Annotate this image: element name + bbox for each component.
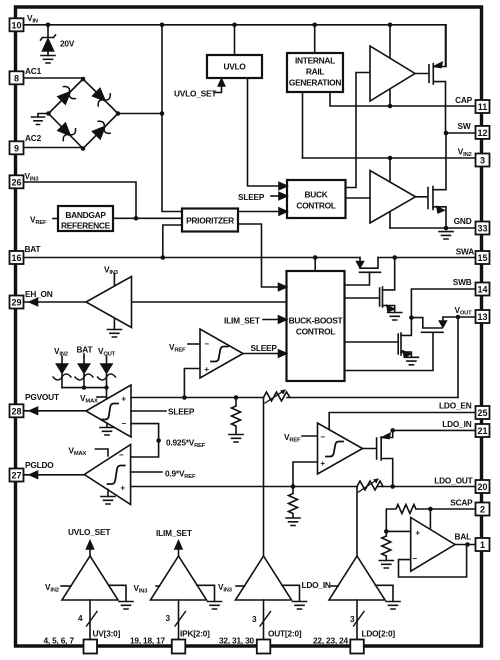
svg-text:3: 3	[252, 614, 257, 624]
svg-text:ILIM_SET: ILIM_SET	[224, 316, 260, 326]
svg-text:20V: 20V	[60, 39, 75, 49]
svg-text:PGLDO: PGLDO	[25, 460, 54, 470]
svg-text:9: 9	[14, 143, 19, 153]
svg-text:20: 20	[477, 482, 487, 492]
svg-text:−: −	[412, 554, 417, 563]
svg-text:PRIORITZER: PRIORITZER	[186, 216, 234, 226]
svg-text:27: 27	[11, 471, 21, 481]
svg-text:8: 8	[14, 73, 19, 83]
svg-text:−: −	[320, 433, 325, 442]
svg-text:+: +	[120, 484, 125, 493]
svg-text:ILIM_SET: ILIM_SET	[156, 528, 192, 538]
svg-text:CONTROL: CONTROL	[296, 327, 335, 337]
svg-text:GENERATION: GENERATION	[289, 78, 341, 88]
svg-text:UVLO: UVLO	[223, 62, 246, 72]
svg-text:CAP: CAP	[455, 95, 473, 105]
svg-text:SLEEP: SLEEP	[251, 343, 278, 353]
svg-text:GND: GND	[454, 216, 472, 226]
svg-text:SLEEP: SLEEP	[238, 192, 265, 202]
svg-text:AC2: AC2	[25, 133, 42, 143]
svg-text:AC1: AC1	[25, 66, 42, 76]
svg-text:+: +	[320, 459, 325, 468]
svg-text:25: 25	[477, 408, 487, 418]
svg-text:IPK[2:0]: IPK[2:0]	[180, 629, 210, 639]
svg-text:SLEEP: SLEEP	[168, 407, 195, 417]
svg-text:+: +	[204, 365, 209, 374]
svg-text:BAT: BAT	[77, 345, 93, 355]
svg-text:CONTROL: CONTROL	[296, 201, 335, 211]
svg-text:UV[3:0]: UV[3:0]	[93, 629, 121, 639]
svg-text:SWB: SWB	[453, 277, 472, 287]
svg-text:LDO_OUT: LDO_OUT	[434, 476, 472, 486]
svg-text:+: +	[415, 529, 420, 538]
svg-text:32, 31, 30: 32, 31, 30	[219, 636, 254, 646]
svg-text:BUCK: BUCK	[305, 190, 328, 200]
svg-text:LDO[2:0]: LDO[2:0]	[362, 629, 396, 639]
svg-text:4, 5, 6, 7: 4, 5, 6, 7	[44, 636, 75, 646]
svg-text:REFERENCE: REFERENCE	[61, 221, 111, 231]
svg-text:19, 18, 17: 19, 18, 17	[130, 636, 165, 646]
svg-text:−: −	[119, 451, 124, 460]
svg-text:BUCK-BOOST: BUCK-BOOST	[289, 316, 344, 326]
svg-text:3: 3	[480, 156, 485, 166]
svg-text:14: 14	[477, 285, 487, 295]
svg-text:−: −	[204, 340, 209, 349]
svg-text:22, 23, 24: 22, 23, 24	[313, 636, 348, 646]
svg-text:16: 16	[11, 253, 21, 263]
svg-text:3: 3	[350, 614, 355, 624]
svg-text:SCAP: SCAP	[450, 498, 473, 508]
svg-text:−: −	[121, 419, 126, 428]
svg-text:BAL: BAL	[455, 532, 472, 542]
svg-text:28: 28	[11, 406, 21, 416]
svg-text:SWA: SWA	[456, 247, 475, 257]
svg-text:15: 15	[477, 253, 487, 263]
svg-text:PGVOUT: PGVOUT	[25, 392, 59, 402]
svg-text:10: 10	[11, 20, 21, 30]
svg-text:3: 3	[166, 613, 171, 623]
svg-text:11: 11	[478, 102, 488, 112]
svg-text:29: 29	[11, 298, 21, 308]
svg-text:4: 4	[78, 613, 83, 623]
svg-text:2: 2	[480, 505, 485, 515]
svg-text:21: 21	[477, 426, 487, 436]
svg-text:BANDGAP: BANDGAP	[65, 210, 106, 220]
svg-text:LDO_EN: LDO_EN	[439, 401, 472, 411]
svg-text:UVLO_SET: UVLO_SET	[174, 89, 216, 99]
svg-text:UVLO_SET: UVLO_SET	[68, 527, 110, 537]
svg-text:EH_ON: EH_ON	[25, 289, 53, 299]
svg-text:33: 33	[477, 224, 487, 234]
svg-text:RAIL: RAIL	[306, 67, 325, 77]
svg-text:LDO_IN: LDO_IN	[302, 580, 331, 590]
svg-text:INTERNAL: INTERNAL	[295, 56, 335, 66]
svg-text:BAT: BAT	[25, 244, 41, 254]
svg-text:13: 13	[477, 312, 487, 322]
svg-text:1: 1	[480, 540, 485, 550]
svg-text:LDO_IN: LDO_IN	[442, 419, 471, 429]
svg-text:26: 26	[11, 177, 21, 187]
svg-text:OUT[2:0]: OUT[2:0]	[268, 629, 302, 639]
svg-text:SW: SW	[458, 121, 471, 131]
svg-text:+: +	[121, 395, 126, 404]
svg-text:12: 12	[477, 128, 487, 138]
